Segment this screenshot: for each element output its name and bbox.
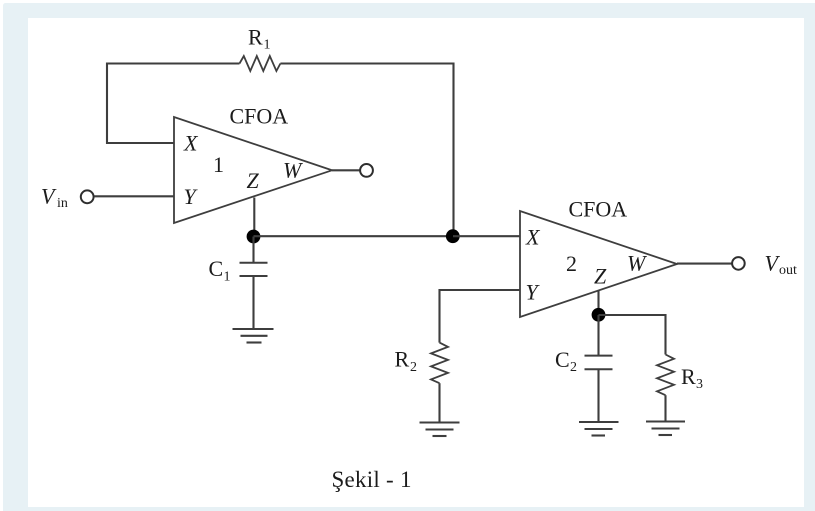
svg-text:Z: Z (247, 168, 260, 193)
svg-text:in: in (57, 196, 68, 211)
wire node C right and down to R3 (599, 315, 666, 355)
svg-text:X: X (525, 225, 541, 250)
svg-text:1: 1 (224, 270, 231, 285)
svg-text:2: 2 (566, 251, 577, 276)
wire R2 to ground (438, 383, 440, 422)
node B (junction dot) (446, 229, 460, 243)
wire W output of U2 to Vout terminal (677, 263, 733, 265)
svg-text:2: 2 (570, 360, 577, 375)
svg-text:CFOA: CFOA (569, 197, 628, 222)
ground (below C1) (233, 329, 274, 343)
svg-text:3: 3 (696, 377, 703, 392)
op-amp U1 (CFOA 1) (174, 104, 332, 224)
wire R3 to ground (664, 395, 666, 421)
svg-text:R: R (681, 364, 696, 389)
node C (junction dot) (592, 308, 606, 322)
wire Z pin of U2 down to node C (597, 291, 599, 316)
resistor R2 (395, 343, 449, 384)
wire Z pin of U1 down to node A (253, 198, 255, 237)
wire U1 apex to output terminal (332, 169, 361, 171)
output terminal Vout (732, 251, 797, 279)
wire node B to X input of U2 (453, 235, 520, 237)
wire Vin terminal to Y input of U1 (94, 195, 174, 197)
wire node A to node B (254, 235, 454, 237)
svg-text:1: 1 (213, 152, 224, 177)
svg-text:W: W (283, 158, 303, 183)
input terminal Vin (41, 184, 94, 212)
svg-text:out: out (779, 263, 797, 278)
ground (below C2) (579, 422, 619, 436)
ground (below R3) (646, 422, 685, 436)
svg-text:2: 2 (410, 360, 417, 375)
wire X input of U1 left and up to R1 (feedback) (107, 64, 240, 144)
svg-text:1: 1 (264, 38, 271, 53)
svg-text:Z: Z (594, 264, 607, 289)
svg-text:R: R (395, 347, 410, 372)
svg-text:C: C (555, 347, 570, 372)
capacitor C1 (209, 237, 268, 329)
svg-text:W: W (627, 251, 647, 276)
svg-text:X: X (183, 131, 199, 156)
capacitor C2 (555, 315, 613, 421)
ground (below R2) (420, 423, 460, 437)
svg-text:Şekil - 1: Şekil - 1 (332, 467, 412, 492)
svg-text:C: C (209, 256, 224, 281)
resistor R3 (657, 355, 703, 396)
node A (junction dot) (247, 230, 261, 244)
resistor R1 (240, 25, 281, 72)
svg-text:CFOA: CFOA (230, 104, 289, 129)
wire Y input of U2 left and down to R2 (440, 290, 521, 343)
svg-text:R: R (248, 25, 263, 50)
output terminal of U1 (360, 164, 373, 177)
op-amp U2 (CFOA 2) (520, 197, 677, 318)
wire R1 right then down to node B (280, 64, 453, 237)
